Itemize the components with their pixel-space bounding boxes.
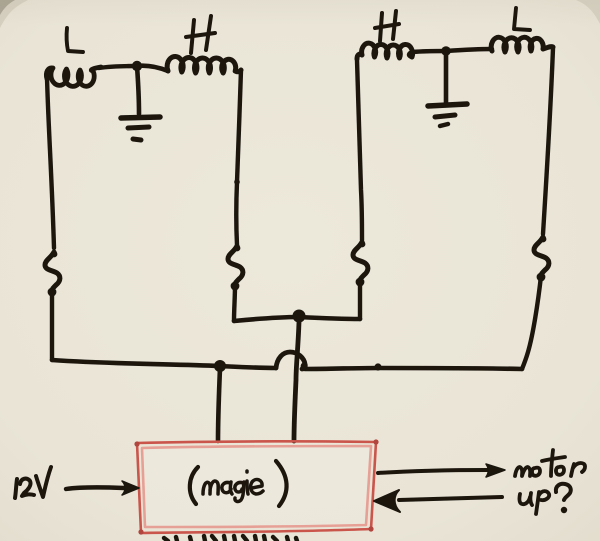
squiggle kink in right inner wire — [353, 242, 368, 281]
ground stub (left) — [137, 66, 139, 114]
corner shade top-left — [0, 0, 15, 15]
node: bus junction to magic box — [214, 360, 226, 372]
node: right center tap junction — [441, 46, 451, 56]
coil L left (low tap) — [46, 67, 101, 86]
squiggle kink in left inner wire — [228, 246, 243, 285]
wire right outer (down) — [543, 48, 553, 234]
wire junction to H coil (left) — [137, 66, 168, 71]
coil H right — [357, 43, 413, 59]
label L (left coil) — [67, 28, 83, 52]
hop arc of bus over center wire — [276, 352, 305, 369]
corner shade top-right — [576, 0, 600, 24]
wire L-coil to center tap (left) — [99, 66, 137, 68]
magic box (red, hand-drawn double stroke) — [134, 439, 378, 534]
wire H-coil to center tap (right) — [413, 51, 446, 52]
arrow box to motor — [378, 470, 488, 473]
squiggle kink in left outer wire — [45, 252, 60, 291]
wire link: left inner to center tap node — [234, 317, 299, 321]
wire bus junction to magic box — [218, 368, 220, 441]
wire left outer (below kink) — [50, 291, 54, 360]
label 12V — [15, 479, 17, 498]
label H (right coil) — [375, 11, 399, 41]
node: small blob on bus — [374, 363, 381, 370]
arrow motor-up back to box — [399, 497, 502, 500]
coil H left (high tap) — [167, 56, 241, 73]
label L (right coil) — [514, 8, 530, 30]
ground stub (right) — [444, 52, 449, 104]
wire right inner (down from H coil left end) — [357, 60, 362, 240]
arrow 12V to box — [66, 487, 124, 489]
coil L right — [491, 37, 553, 52]
wire link: center node to right inner — [299, 317, 360, 319]
caption text cut off at bottom edge — [164, 536, 297, 541]
bus wire (bottom horizontal) — [52, 360, 276, 368]
wire left inner (down from H coil) — [236, 70, 241, 245]
wire left outer (down) — [47, 77, 54, 248]
node: left center tap junction — [132, 61, 142, 71]
wire right inner (below kink) — [358, 281, 362, 319]
ground symbol (right) — [428, 104, 467, 106]
squiggle kink in right outer wire — [534, 237, 549, 276]
label (magie) inside box — [190, 467, 198, 504]
ground symbol (left) — [121, 117, 160, 118]
wire center tap to L-coil (right) — [446, 49, 492, 51]
wire left inner (below kink) — [234, 285, 235, 321]
wire center-tap drop (continuous through hop) — [294, 322, 299, 441]
label H (left coil) — [186, 16, 215, 53]
node: center tap (to magic box) — [293, 310, 306, 323]
label up? — [519, 493, 532, 505]
label motor — [515, 467, 530, 476]
wire right outer (below kink) — [522, 276, 541, 369]
